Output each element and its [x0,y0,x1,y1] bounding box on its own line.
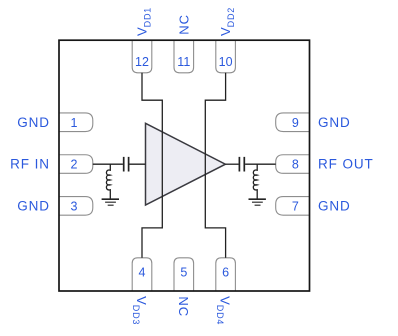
pin 3 box [59,197,93,216]
wire: amplifier output to capacitor C2 [225,163,238,165]
svg-text:NC: NC [176,296,191,316]
svg-text:VDD1: VDD1 [135,8,153,36]
pin 12 box [132,41,152,73]
svg-text:3: 3 [71,200,78,214]
svg-text:GND: GND [318,115,351,130]
svg-text:RF OUT: RF OUT [318,157,374,172]
pin 8 box [276,155,310,174]
pin 9 box [276,113,310,132]
ground (output side) [249,199,266,205]
pin 7 box [276,197,310,216]
svg-text:1: 1 [71,116,78,130]
svg-text:RF IN: RF IN [10,157,50,172]
pin 2 box [59,155,93,174]
svg-text:6: 6 [222,265,229,279]
pin 4 box [132,258,152,291]
svg-text:5: 5 [180,265,187,279]
svg-text:VDD3: VDD3 [131,296,149,324]
svg-text:12: 12 [135,55,149,69]
wire: capacitor C2 to pin 8 [245,163,276,165]
svg-text:10: 10 [219,55,233,69]
svg-text:GND: GND [318,198,351,213]
svg-text:VDD2: VDD2 [218,8,236,36]
inductor L1 [106,164,110,198]
wire: pin 2 to capacitor C1 [93,163,123,165]
svg-text:2: 2 [71,158,78,172]
amplifier A1 [146,123,226,205]
pin 5 box [174,258,194,291]
ground (input side) [102,199,119,205]
svg-text:NC: NC [176,15,191,35]
svg-text:9: 9 [292,116,299,130]
wire: capacitor C1 to amplifier input [129,163,145,165]
svg-text:VDD4: VDD4 [215,296,233,324]
capacitor C1 [124,157,129,172]
wire: VDD1 net (pin 12 to pin 4) [142,73,162,258]
wire: VDD2 net (pin 10 to pin 6) [205,73,225,258]
pin 6 box [216,258,236,291]
pin 1 box [59,113,93,132]
svg-text:11: 11 [177,55,190,69]
svg-text:8: 8 [292,158,299,172]
pin 11 box [174,41,194,73]
pin 10 box [216,41,236,73]
svg-text:4: 4 [139,265,146,279]
inductor L2 [253,164,257,198]
svg-text:GND: GND [17,115,50,130]
svg-text:7: 7 [292,200,299,214]
IC package outline [59,40,310,291]
capacitor C2 [239,157,244,172]
svg-text:GND: GND [17,198,50,213]
